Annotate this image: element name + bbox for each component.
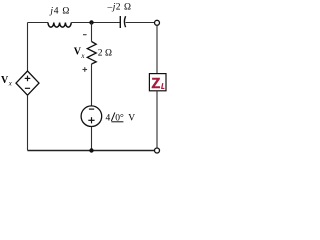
wire bottom horizontal [28,150,155,152]
terminal b [155,148,160,153]
wire middle branch center [91,64,93,106]
node junction top [89,20,93,24]
wire left vertical upper [27,23,29,72]
wire middle branch upper [91,23,93,42]
wire right vertical upper [156,25,158,73]
terminal a [155,20,160,25]
plus inside source [88,117,94,123]
svg-text:x: x [80,52,85,60]
wire top-left horizontal [28,22,49,24]
minus inside source [89,108,94,110]
wire top-middle horizontal [71,22,120,24]
minus polarity above resistor [83,34,87,36]
svg-text:j4 Ω: j4 Ω [48,7,70,17]
source V1 circle [81,106,102,127]
inductor L1 [48,23,71,28]
svg-text:4: 4 [106,114,111,124]
resistor R1 2 ohm zigzag [87,42,96,65]
svg-text:0°: 0° [115,113,124,124]
svg-text:–j2 Ω: –j2 Ω [107,3,132,13]
plus polarity below resistor [83,67,88,72]
capacitor C1 [120,16,125,28]
wire top-right horizontal [126,22,154,24]
svg-text:2 Ω: 2 Ω [98,49,112,59]
minus inside diamond [25,87,30,89]
svg-text:V: V [128,114,135,124]
wire right vertical lower [156,91,158,148]
node junction bottom [89,148,93,152]
impedance ZL box [149,74,166,91]
svg-text:x: x [8,80,13,88]
dependent source Vx diamond [16,71,39,95]
wire left vertical lower [27,95,29,150]
wire middle branch lower [91,127,93,151]
label 4 angle 0 V [106,112,136,123]
plus inside diamond [25,76,31,82]
